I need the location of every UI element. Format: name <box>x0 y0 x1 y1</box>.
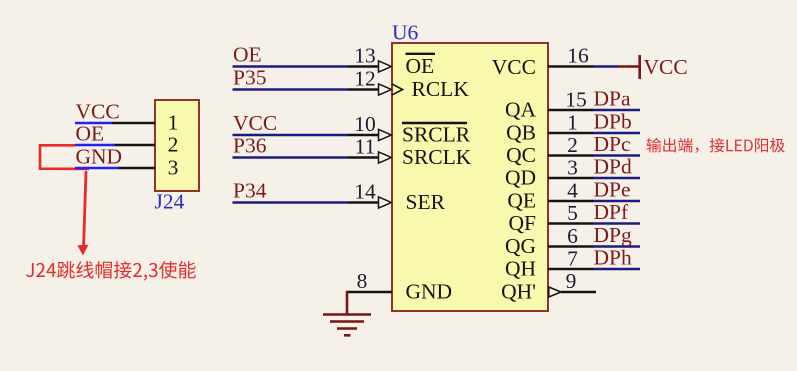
pin wire U6 pin 2 <box>548 154 594 156</box>
pin wire to J24 (OE) <box>115 144 155 146</box>
svg-text:11: 11 <box>355 135 376 159</box>
svg-text:12: 12 <box>354 67 376 91</box>
pin wire U6 pin 15 <box>548 109 594 111</box>
wire net DPe (blue) <box>594 200 641 202</box>
connector J24 body <box>155 100 199 191</box>
svg-text:VCC: VCC <box>76 100 120 124</box>
svg-text:QH: QH <box>505 257 536 281</box>
pin wire U6 pin 1 <box>548 132 594 134</box>
svg-text:SRCLK: SRCLK <box>402 145 472 169</box>
wire net DPb (blue) <box>594 132 641 134</box>
power symbol VCC (bar) <box>619 55 640 79</box>
pin wire U6 pin 12 <box>348 88 379 90</box>
wire net DPh (blue) <box>594 268 641 270</box>
input arrow at U6 pin 11 <box>379 152 392 163</box>
svg-text:QH': QH' <box>501 280 536 304</box>
svg-text:DPd: DPd <box>594 155 632 179</box>
input arrow at U6 pin 12 <box>379 84 392 95</box>
wire net DPc (blue) <box>594 154 641 156</box>
svg-text:SER: SER <box>406 190 446 214</box>
wire net P36 (blue) to U6 pin 11 <box>233 156 349 158</box>
svg-text:QE: QE <box>507 189 536 213</box>
svg-text:DPf: DPf <box>594 200 629 224</box>
svg-text:U6: U6 <box>392 21 419 45</box>
svg-text:GND: GND <box>406 280 453 304</box>
annotation text J24跳线帽接2,3使能 <box>26 261 196 281</box>
output arrow at U6 pin 9 <box>549 287 561 297</box>
annotation text 输出端，接LED阳极 <box>647 138 785 153</box>
jumper wire (red) shorting J24 pins 2-3 <box>40 145 89 169</box>
svg-text:DPg: DPg <box>594 223 632 247</box>
svg-text:QG: QG <box>505 234 536 258</box>
svg-text:VCC: VCC <box>644 55 688 79</box>
svg-text:2: 2 <box>168 133 179 157</box>
svg-text:14: 14 <box>354 180 376 204</box>
wire net OE (blue) to U6 pin 13 <box>233 65 349 67</box>
svg-text:GND: GND <box>76 145 123 169</box>
pin wire U6 pin 16 <box>548 65 594 67</box>
pin wire U6 pin 9 <box>561 291 596 293</box>
svg-text:9: 9 <box>566 269 577 293</box>
svg-text:7: 7 <box>567 247 578 271</box>
pin wire U6 pin 3 <box>548 177 594 179</box>
wire net DPf (blue) <box>594 222 641 224</box>
input arrow at U6 pin 14 <box>379 197 392 208</box>
svg-text:OE: OE <box>233 42 262 66</box>
svg-text:4: 4 <box>567 179 578 203</box>
svg-text:5: 5 <box>567 201 578 225</box>
wire GND (blue net segment) to J24 <box>75 167 118 169</box>
pin wire U6 pin 7 <box>548 268 594 270</box>
annotation arrow (red) <box>77 171 88 255</box>
svg-text:15: 15 <box>565 88 587 112</box>
svg-text:OE: OE <box>76 122 105 146</box>
wire (blue) pin 16 to VCC <box>594 65 619 67</box>
pin wire U6 pin 8 (GND) <box>347 291 392 293</box>
svg-text:3: 3 <box>567 156 578 180</box>
svg-text:QF: QF <box>509 211 537 235</box>
svg-text:QD: QD <box>505 166 536 190</box>
svg-text:VCC: VCC <box>492 55 536 79</box>
svg-text:J24: J24 <box>155 190 185 214</box>
pin wire U6 pin 13 <box>348 65 379 67</box>
pin wire U6 pin 14 <box>348 201 379 203</box>
svg-text:3: 3 <box>168 156 179 180</box>
input arrow at U6 pin 10 <box>379 129 392 140</box>
clock input chevron at U6 pin 12 (RCLK) <box>392 84 403 95</box>
wire net DPg (blue) <box>594 245 641 247</box>
wire net P35 (blue) to U6 pin 12 <box>233 88 349 90</box>
svg-text:RCLK: RCLK <box>412 77 470 101</box>
svg-text:QA: QA <box>505 98 537 122</box>
svg-text:SRCLR: SRCLR <box>402 123 471 147</box>
pin wire U6 pin 5 <box>548 222 594 224</box>
svg-text:P34: P34 <box>233 178 267 202</box>
svg-text:2: 2 <box>567 133 578 157</box>
svg-text:OE: OE <box>406 54 435 78</box>
svg-text:1: 1 <box>168 111 179 135</box>
svg-text:VCC: VCC <box>233 111 277 135</box>
svg-text:DPe: DPe <box>594 178 631 202</box>
svg-text:P36: P36 <box>233 133 267 157</box>
op-amp-style IC body U6 (74HC595) <box>392 43 548 311</box>
svg-text:10: 10 <box>354 112 376 136</box>
pin wire to J24 (GND) <box>118 167 155 169</box>
wire OE (blue net segment) to J24 <box>75 144 115 146</box>
svg-text:8: 8 <box>357 269 368 293</box>
pin wire to J24 (VCC) <box>112 122 155 124</box>
svg-text:DPa: DPa <box>594 87 631 111</box>
wire net DPa (blue) <box>594 109 641 111</box>
wire net DPd (blue) <box>594 177 641 179</box>
wire VCC (blue net segment) to J24 <box>75 122 112 124</box>
svg-text:P35: P35 <box>233 65 266 89</box>
svg-text:QB: QB <box>506 121 536 145</box>
input arrow at U6 pin 13 <box>379 61 392 72</box>
svg-text:DPc: DPc <box>594 132 631 156</box>
wire net VCC (blue) to U6 pin 10 <box>233 134 349 136</box>
pin wire U6 pin 4 <box>548 200 594 202</box>
pin wire U6 pin 10 <box>348 134 379 136</box>
svg-text:DPb: DPb <box>594 110 632 134</box>
svg-text:QC: QC <box>506 143 536 167</box>
svg-text:DPh: DPh <box>594 246 632 270</box>
svg-text:1: 1 <box>567 111 578 135</box>
svg-text:13: 13 <box>354 44 376 68</box>
pin wire U6 pin 6 <box>548 245 594 247</box>
ground symbol <box>323 291 371 336</box>
wire net P34 (blue) to U6 pin 14 <box>233 201 349 203</box>
svg-text:6: 6 <box>567 224 578 248</box>
pin wire U6 pin 11 <box>348 156 379 158</box>
svg-text:16: 16 <box>567 44 589 68</box>
